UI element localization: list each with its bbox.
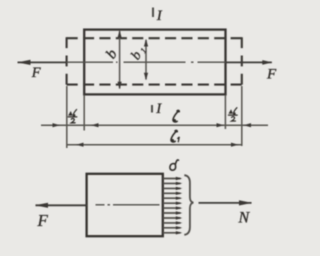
svg-text:F: F [31, 65, 41, 81]
svg-text:I: I [156, 8, 163, 24]
svg-text:I: I [155, 101, 162, 117]
svg-text:F: F [266, 66, 277, 82]
svg-text:N: N [238, 210, 251, 227]
svg-text:F: F [37, 211, 49, 230]
